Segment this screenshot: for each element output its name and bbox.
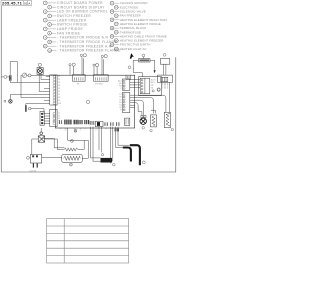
legend item Heating Element Freezer (114, 39, 163, 43)
wire bus (10, 81, 50, 83)
connector J6 on PCB right edge (122, 92, 129, 112)
thermistor RT1 (25, 104, 50, 113)
svg-text:A: A (28, 1, 30, 5)
svg-text:SWITCH FRIDGE: SWITCH FRIDGE (57, 23, 88, 27)
wire J1 pin stub (46, 76, 50, 78)
svg-text:01: 01 (24, 1, 28, 5)
wire (112, 127, 114, 162)
compressor M1 (27, 155, 42, 168)
wires X2 to J2 (44, 114, 49, 124)
legend item Fan Freezer (114, 14, 140, 18)
svg-text:P2 TB-0: P2 TB-0 (95, 83, 103, 85)
labels J5 (118, 79, 122, 90)
appliance inlet P1 (101, 158, 113, 163)
connector J1 on PCB left edge (50, 75, 57, 105)
wire (68, 139, 89, 141)
svg-text:S1: S1 (151, 87, 153, 89)
svg-text:CIRCUIT BOARD DISPLAY: CIRCUIT BOARD DISPLAY (57, 5, 105, 9)
wire arrowhead (154, 70, 156, 73)
drain heater R6 (62, 154, 83, 162)
svg-text:C10 00: C10 00 (30, 170, 37, 172)
wire (39, 74, 50, 91)
wire stub (130, 104, 135, 106)
title block (1, 1, 32, 6)
wire stub (130, 107, 135, 109)
earth terminal (157, 88, 160, 91)
wire (116, 127, 123, 148)
connector J2 on PCB left edge (50, 110, 57, 127)
wire (41, 74, 50, 79)
svg-text:C6: C6 (58, 91, 60, 93)
wire (133, 60, 142, 76)
svg-text:C9: C9 (58, 100, 60, 102)
svg-text:6: 6 (96, 130, 97, 132)
wire J1 pin stub (44, 100, 50, 102)
connector X2 (40, 111, 44, 125)
wire to heater R4 (168, 83, 170, 113)
terminal (71, 140, 74, 143)
svg-text:J2: J2 (80, 128, 82, 130)
wire (118, 127, 130, 146)
connector P3 on PCB top edge (73, 75, 86, 82)
fuse F1 (7, 75, 11, 80)
wire bus (21, 75, 50, 97)
legend item 4 Switch Freezer (48, 14, 92, 18)
svg-text:C2: C2 (58, 79, 60, 81)
legend item Heater Light Ac (114, 47, 146, 51)
legend item Terminal Block (110, 26, 146, 30)
legend item 2 Circuit Board Display (48, 5, 106, 9)
fan fridge motor M3 (4, 100, 12, 104)
defrost thermostat B1 (38, 132, 44, 142)
wire elbow to heater R4 (130, 95, 166, 112)
labels J2 (58, 113, 60, 125)
wire (82, 140, 88, 158)
svg-text:110: 110 (65, 128, 68, 130)
fuse terminal node (4, 75, 7, 78)
wire (42, 139, 64, 148)
twisted pair marks (115, 129, 119, 132)
terminal (101, 154, 103, 156)
wire (42, 156, 62, 158)
svg-text:C4: C4 (58, 85, 60, 87)
legend item 11 - Thermistor Freezer A.R (43, 44, 111, 48)
svg-text:12: 12 (65, 130, 67, 132)
svg-text:J4: J4 (60, 128, 62, 130)
heating element R3 (150, 115, 157, 132)
wire (91, 127, 101, 158)
connector J5 on PCB right edge (122, 79, 129, 90)
svg-text:3 4: 3 4 (111, 128, 113, 130)
wire (2, 76, 4, 78)
node circle (152, 90, 154, 92)
wire (165, 64, 167, 75)
legend item Solenoid Valve (110, 10, 146, 14)
svg-text:C7: C7 (58, 94, 60, 96)
legend item 7 Lamp Fridge (43, 27, 83, 31)
switch S1 (21, 73, 27, 78)
power cord hook B (130, 145, 140, 165)
wire (151, 110, 155, 113)
wire (93, 127, 101, 162)
wire elbow to fan motor (130, 100, 144, 115)
PCB bottom pin headers (59, 120, 94, 125)
thermistor terminal (28, 107, 31, 110)
wire (27, 74, 29, 76)
schematic frame border (1, 6, 176, 172)
svg-text:- THERMISTOR FREEZER FLANGE: - THERMISTOR FREEZER FLANGE (57, 49, 121, 53)
legend item 3 Led Of Burner Control (43, 10, 108, 14)
legend item Heating Element Drain Tray (110, 18, 167, 22)
fan motor M2 (140, 116, 146, 130)
connector P1 (126, 75, 131, 79)
twisted wire pair (163, 83, 168, 89)
wire (40, 128, 42, 132)
tick (132, 68, 135, 69)
terminal (113, 163, 116, 166)
svg-text:C1: C1 (58, 76, 60, 78)
legend item 1 Circuit Board Power (43, 1, 103, 5)
wire (150, 60, 155, 70)
connector X4 (158, 75, 173, 82)
wire bus (10, 95, 49, 100)
mounting hole (86, 100, 89, 103)
lamp E1 (37, 68, 43, 75)
wire elbow (130, 103, 142, 116)
wire node group 2 (93, 55, 107, 75)
heating element R2 (139, 54, 151, 62)
wire (31, 109, 44, 114)
power cord hook A (123, 148, 131, 162)
wire (163, 64, 165, 75)
svg-text:C8: C8 (58, 97, 60, 99)
pointer arrow annotation (130, 53, 134, 59)
wire bracket (10, 62, 17, 83)
cord terminal (142, 161, 145, 164)
legend item 10 - Thermistor Fridge Flange (48, 40, 118, 44)
pin pairs (105, 122, 120, 126)
circuit board U1 outline (55, 75, 134, 128)
wire (32, 139, 39, 155)
legend item Thermofuse (114, 30, 141, 34)
svg-text:C5: C5 (58, 88, 60, 90)
legend item 12 - Thermistor Freezer Flange (48, 49, 121, 53)
terminal circle (128, 66, 131, 69)
wire (31, 74, 55, 76)
svg-text:AC1: AC1 (118, 79, 121, 82)
wires J5 to X5 (130, 80, 140, 88)
wire (78, 140, 84, 149)
switch terminal (28, 74, 31, 77)
wire (101, 127, 103, 153)
legend item Electrode (114, 5, 138, 9)
revision table (47, 219, 129, 263)
legend item Chassis Ground (110, 1, 147, 5)
terminal (70, 163, 73, 166)
wire (39, 66, 41, 67)
node circle (157, 88, 160, 91)
connector X5 housing (139, 77, 162, 96)
legend item 6 Switch Fridge (48, 23, 89, 27)
wire J1 pin stub (44, 88, 50, 90)
labels J1 (58, 76, 61, 105)
small motor icon (74, 129, 77, 132)
drain heater R5 (64, 148, 78, 151)
svg-text:C10: C10 (58, 103, 61, 105)
terminal block TB1 (160, 53, 169, 64)
legend item Heating Element Fridge (114, 22, 160, 26)
wire (109, 127, 111, 164)
wire node group 1 (69, 54, 87, 75)
wire (67, 128, 69, 140)
svg-text:C3: C3 (58, 82, 60, 84)
wire (98, 127, 100, 150)
connector J8 on PCB bottom right (125, 118, 130, 125)
legend item Heating Cable Front Frame (110, 34, 167, 38)
heating element R4 (164, 112, 173, 131)
svg-text:1 2: 1 2 (105, 128, 107, 130)
legend item 8 Fan Fridge (48, 31, 81, 35)
terminal block X3 (95, 121, 103, 126)
legend item 9 - Thermistor Fridge A.R (43, 36, 108, 40)
pin header labels (60, 128, 119, 132)
connector X5 (140, 78, 150, 94)
svg-text:8: 8 (80, 130, 81, 132)
lamp terminal (38, 63, 41, 66)
wire elbow to heater R3 (130, 98, 154, 114)
connector P2 on PCB top edge (94, 75, 109, 82)
svg-text:- THERMISTOR FRIDGE A.R: - THERMISTOR FRIDGE A.R (57, 36, 109, 40)
labels X5 (151, 79, 156, 90)
svg-text:HEATER LIGHT AC: HEATER LIGHT AC (120, 47, 147, 51)
labels J6 (119, 94, 122, 111)
legend item Protective Earth (110, 43, 150, 47)
svg-text:205.45.71: 205.45.71 (2, 1, 23, 6)
svg-text:AC L: AC L (151, 81, 155, 84)
legend item 5 Lamp Freezer (43, 18, 86, 22)
wire (45, 139, 65, 150)
